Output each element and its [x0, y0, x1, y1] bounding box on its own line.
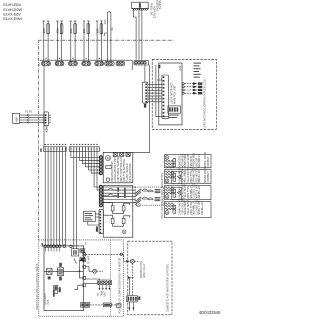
svg-text:X2M: X2M [44, 126, 48, 133]
X1M terminal pair 6 (breaker) [105, 61, 114, 66]
svg-text:ONLY FOR MODELS WITH BACKUP HT: ONLY FOR MODELS WITH BACKUP HTR [161, 173, 164, 219]
wires X6M bending right [71, 151, 99, 157]
X1M terminal numbers [45, 58, 46, 59]
svg-text:3N~: 3N~ [110, 26, 114, 31]
svg-text:A4P: A4P [178, 65, 182, 70]
terminal strip X4M [98, 280, 112, 285]
user interface wires P1 P2 [20, 114, 44, 116]
contactor coils [155, 189, 161, 201]
switch box partition [110, 240, 112, 316]
svg-text:B: B [123, 230, 125, 234]
svg-text:CONTACT: CONTACT [207, 171, 210, 183]
heater thermal contacts [103, 189, 116, 196]
wires X10A to A4P [148, 83, 162, 85]
backup heater elements [103, 203, 112, 206]
terminal stack on heater box [99, 185, 102, 206]
A4P top-left mark [158, 65, 160, 68]
wire X1M to X2M bus [43, 66, 45, 147]
svg-text:TO: TO [98, 293, 100, 296]
component CN2 fuse holder [47, 269, 52, 275]
inner PCB box A1P [44, 246, 84, 311]
svg-text:1: 1 [85, 242, 87, 246]
tank arrow 2 [128, 276, 132, 279]
connector X10A [142, 82, 148, 103]
contactor contacts [142, 189, 153, 200]
svg-text:20A: 20A [42, 28, 46, 33]
screw terminal earth [86, 266, 90, 268]
svg-text:PCB: PCB [47, 299, 50, 304]
svg-text:1: 1 [38, 62, 40, 66]
svg-text:A8P: A8P [15, 116, 19, 121]
svg-text:20A: 20A [56, 28, 60, 33]
A1P top terminals [42, 243, 44, 246]
wires stack2 to contactor box [103, 186, 136, 188]
tank rotated text [140, 260, 146, 278]
ground hatching under supply box [132, 9, 149, 11]
tank vertical wires [128, 279, 130, 296]
supply terminal block [134, 60, 149, 65]
svg-text:TANK: TANK [100, 290, 103, 296]
X1M terminal pair 2 [55, 61, 64, 66]
breaker Q1DI with curl [105, 12, 111, 61]
A1P extra circles [63, 245, 66, 248]
wires to F1B down [73, 151, 75, 248]
supply wire L (stepped) [133, 9, 136, 60]
svg-text:CONTACT: CONTACT [207, 156, 210, 168]
screw terminal wire 1 [86, 253, 122, 255]
label X5M [40, 149, 42, 152]
wire supply to pump box [133, 65, 150, 153]
X4M labels below [98, 290, 107, 296]
model list text [3, 2, 22, 21]
connector X1M supply box [132, 2, 149, 8]
X1M single terminals [116, 61, 125, 66]
circled B [122, 230, 126, 234]
small relay box K3R [83, 211, 95, 221]
svg-text:INSTALLED: INSTALLED [201, 201, 204, 214]
svg-text:TO A4P: TO A4P [87, 255, 90, 264]
terminal strip X1M rail [40, 60, 132, 70]
tank feed arrow [126, 260, 130, 263]
component F1B box [72, 249, 79, 256]
A4P bottom connector [168, 106, 181, 113]
wires K3R to X8M [95, 213, 99, 215]
X1M terminal pair 5 [95, 61, 104, 66]
svg-text:20A: 20A [69, 28, 73, 33]
component row M4S [165, 185, 211, 199]
label S1S [96, 227, 98, 231]
svg-text:M: M [166, 211, 168, 215]
tank connector [127, 296, 138, 302]
svg-text:SWITCH BOX AND ELECTRICAL PART: SWITCH BOX AND ELECTRICAL PARTS [36, 263, 39, 310]
box backup heater E1H-E3H [103, 186, 133, 238]
A4P inner rotated text [171, 82, 177, 104]
box M1P rotated text [111, 156, 132, 182]
X1M terminal pair 4 [82, 61, 91, 66]
svg-text:M: M [107, 156, 110, 160]
fuse F3B with 20A label [70, 21, 77, 61]
bottom connector X6A [81, 303, 90, 308]
component row M2S [165, 201, 211, 217]
svg-text:UNIT: UNIT [105, 290, 107, 296]
svg-text:(M2E) FIELD: (M2E) FIELD [143, 264, 146, 278]
svg-text:SUPPLY: SUPPLY [158, 0, 162, 9]
terminal strip X6M segment 2 [69, 147, 99, 152]
supply wire N [138, 9, 140, 60]
terminal strip X5M segment 1 [44, 147, 67, 152]
box M1P pump [103, 152, 133, 182]
user interface box A8P (field) [13, 113, 20, 123]
fuse F4B with 20A label [83, 21, 90, 61]
bottom dashed wire with component [90, 304, 104, 306]
label X10A [144, 104, 146, 108]
main low-voltage wire [44, 270, 83, 272]
circled A [136, 203, 140, 207]
A1P bottom-left rotated text [44, 293, 50, 304]
svg-text:20A: 20A [95, 28, 99, 33]
svg-text:DOMESTIC HOT WATER TANK (OPTIO: DOMESTIC HOT WATER TANK (OPTION) [167, 264, 170, 312]
fuse F1B with 20A label [43, 21, 50, 61]
A4P connector strip [162, 75, 169, 119]
svg-text:ELVX-E9W: ELVX-E9W [3, 16, 22, 21]
supply label text (rotated) [150, 0, 163, 18]
svg-text:TAPE (OPTION): TAPE (OPTION) [129, 163, 132, 181]
svg-text:INSTALLED: INSTALLED [198, 185, 201, 198]
A4P comm arrows [182, 83, 184, 85]
svg-text:M: M [166, 156, 168, 160]
svg-text:M: M [166, 195, 168, 199]
terminal block X2M [44, 112, 49, 126]
tank earth screw [129, 260, 132, 262]
fuse F5B with 20A label [96, 21, 103, 61]
box M1P top terminals [113, 152, 130, 156]
svg-text:4D0432548: 4D0432548 [199, 310, 221, 315]
box contactors K1M K5M [135, 187, 164, 205]
component row M2P [165, 155, 211, 168]
A4P PCB box [159, 63, 182, 125]
svg-text:USER INTERFACE (OPTION EKRUCBL: USER INTERFACE (OPTION EKRUCBL1/2/3) [204, 79, 207, 129]
terminal stack on M1P box [99, 156, 102, 175]
A1P right edge pins [83, 253, 86, 256]
contactor row hatch blobs [136, 189, 142, 204]
dashed box user interface PCB [152, 59, 216, 129]
tank feed wire [121, 254, 126, 261]
svg-text:INSTALLED: INSTALLED [198, 170, 201, 183]
wire A4P bottom [156, 65, 168, 117]
supply wire PE [141, 9, 143, 60]
tank box dashed border [128, 241, 172, 315]
unit dashed border left [38, 40, 40, 240]
component thermistor plug [54, 285, 58, 293]
unit dashed border top [39, 39, 174, 41]
connector X8M stack [99, 210, 103, 234]
fuse F2B with 20A label [56, 21, 63, 61]
svg-text:20A: 20A [82, 28, 86, 33]
X4M feed wires [86, 279, 100, 280]
component F1U F2U fuses [58, 268, 64, 276]
svg-text:P1 P2: P1 P2 [25, 110, 33, 114]
wires X5M down to switch box [44, 151, 46, 244]
A1P terminal stubs [44, 248, 46, 252]
svg-text:16A: 16A [103, 19, 107, 24]
svg-text:MAIN PCB UNIT: MAIN PCB UNIT [174, 85, 177, 104]
wire step inside A4P [157, 79, 162, 81]
X1M terminal pair 1 [42, 61, 51, 66]
tank bottom arrows [128, 302, 130, 308]
svg-text:A: A [137, 203, 139, 207]
svg-text:SEE NOTE 4: SEE NOTE 4 [198, 153, 201, 168]
svg-text:M: M [166, 179, 168, 183]
wire supply to X10A [144, 65, 146, 82]
component row M3S [165, 170, 211, 184]
F1B side rects [80, 249, 85, 261]
X1M terminal pair 3 [69, 61, 78, 66]
A4P comm labels [194, 63, 202, 78]
connector wires into A1P [73, 248, 75, 250]
switch box outer dotted border [39, 240, 124, 316]
